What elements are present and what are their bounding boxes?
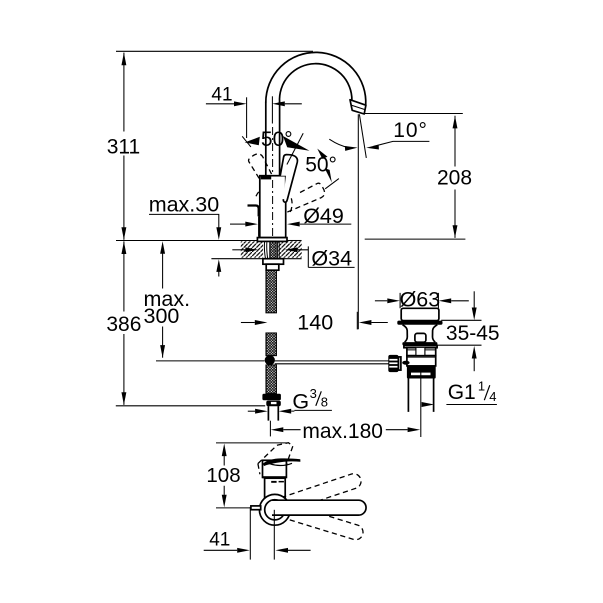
dimension 311 arrow down	[121, 227, 126, 240]
faucet centerline (dash-dot)	[272, 127, 274, 243]
dimension 108	[222, 444, 227, 457]
flexible hose middle segment	[266, 333, 276, 356]
svg-text:G: G	[292, 390, 309, 414]
countertop top line right	[287, 240, 302, 242]
dimension 311 vertical line	[123, 53, 125, 240]
G 3/8 dimension arrows	[248, 410, 255, 412]
pull rod bar (plan)	[251, 506, 261, 510]
countertop hatch left block	[241, 241, 263, 257]
pull-rod knob	[248, 206, 259, 217]
countertop top line left	[116, 240, 257, 242]
countertop bottom line left	[211, 258, 262, 260]
dimension 35-45	[473, 291, 475, 308]
50° second arc top arrowhead	[317, 149, 327, 159]
top reference line (spout max height)	[116, 50, 313, 52]
50° left angle leg line	[242, 136, 251, 147]
clamp body	[407, 348, 436, 356]
svg-text:50°: 50°	[305, 154, 337, 177]
water stream vertical reference line	[357, 114, 359, 329]
countertop hatch right block	[278, 241, 302, 257]
dimension max.180	[271, 427, 284, 432]
mounting nut dark band	[407, 366, 436, 379]
dimension Ø49 line and arrows	[230, 223, 245, 225]
tick marks	[271, 481, 276, 483]
lever underside crescent	[270, 463, 292, 465]
dimension 386 arrow down	[121, 392, 126, 405]
waste tailpipe G1 1/4	[408, 379, 433, 412]
svg-text:35-45: 35-45	[446, 322, 500, 345]
41 top left extension line	[246, 97, 248, 138]
svg-text:max.30: max.30	[149, 193, 220, 217]
clamp screw head	[402, 361, 409, 365]
cartridge dark band	[261, 177, 271, 180]
plan body box	[263, 460, 287, 477]
10° arrow right-pointing	[345, 145, 358, 151]
centerline inside body	[272, 180, 274, 243]
faucet centre extension below stub	[269, 421, 271, 437]
seal washer dark band	[402, 342, 437, 345]
10° arrow left-pointing	[366, 145, 379, 151]
dimension 208 vertical	[454, 116, 456, 238]
max.30 arrow up to counter bottom	[216, 259, 221, 272]
10° leader line	[374, 141, 430, 146]
spout outer arc	[266, 52, 366, 105]
41 top right extension (pipe centre)	[271, 96, 273, 123]
countertop bottom line right	[284, 258, 302, 260]
50° right angle leg line	[325, 179, 339, 189]
pop-up waste neck right curve	[433, 325, 438, 342]
solid lever capsule (plan)	[272, 500, 366, 515]
max.300 reference line at hose joint	[156, 360, 265, 362]
svg-text:max.180: max.180	[302, 420, 383, 443]
waste centerline	[420, 370, 422, 438]
plan body dark bottom edge	[263, 476, 287, 478]
solid lever (fill)	[280, 155, 297, 203]
Ø63 dimension arrows	[375, 300, 387, 302]
pull-rod stem	[258, 216, 260, 236]
horizontal pop-up linkage rod	[275, 361, 389, 364]
left dashed lever position (50° open left)	[245, 151, 290, 198]
G 3/8 thread stub	[268, 406, 278, 421]
svg-text:3: 3	[310, 386, 317, 401]
seal sub-band	[404, 346, 437, 348]
pivot clamp collar	[399, 357, 401, 370]
max.30 leader underline	[149, 214, 219, 229]
hose end reference line for 386	[116, 405, 265, 407]
pop-up rod ball joint	[265, 355, 275, 365]
mounting bolts in counter	[264, 241, 279, 258]
dashed swing trace arc left	[256, 188, 263, 196]
plan lower box	[265, 478, 286, 497]
label G1 1/4 with leader	[422, 402, 435, 407]
base flange escutcheon	[257, 238, 287, 242]
dimension 386 vertical line	[123, 241, 125, 405]
spout riser pipe	[266, 102, 280, 176]
50° left arc arrowhead	[245, 137, 260, 145]
pivot rod clamp knurled knob	[388, 355, 398, 372]
dimension 140	[241, 322, 255, 324]
svg-text:Ø34: Ø34	[311, 246, 352, 270]
svg-text:10°: 10°	[393, 119, 427, 142]
svg-text:140: 140	[297, 311, 333, 335]
flexible hose lower segment	[266, 365, 276, 393]
50° second arc bottom arrowhead	[325, 168, 332, 182]
solid lever (outline)	[280, 155, 297, 203]
plan view bottom extension line	[216, 507, 251, 509]
flexible hose upper segment	[266, 270, 276, 312]
plan view top extension line	[216, 442, 287, 444]
escutcheon inner circle (plan)	[265, 500, 285, 520]
dimension 386 arrow up	[121, 241, 126, 254]
svg-text:108: 108	[206, 464, 240, 487]
svg-text:311: 311	[107, 136, 140, 159]
svg-text:41: 41	[211, 84, 232, 105]
G 3/8 hose fitting	[262, 394, 281, 401]
dashed swivel lever down (plan)	[274, 501, 364, 542]
svg-text:1: 1	[478, 378, 485, 393]
threaded shank through counter	[270, 241, 276, 258]
10° tilted stream line	[359, 114, 366, 158]
208 top reference line	[365, 113, 463, 115]
max.300 arrow up	[160, 241, 165, 254]
dimension Ø34 line and arrows	[232, 249, 245, 251]
lever seen edge-on (black swoosh)	[263, 458, 301, 466]
50° middle angle leg line	[287, 133, 303, 164]
right dashed lever position (50° open right)	[279, 179, 327, 222]
max.300 arrow down	[162, 327, 164, 358]
41 top dimension line and arrows	[206, 103, 234, 105]
svg-text:386: 386	[106, 313, 141, 336]
max.30 arrow down to counter top	[216, 227, 221, 240]
10° angle arc	[329, 139, 348, 147]
escutcheon outer circle (plan)	[259, 494, 290, 525]
pop-up waste flange dark rim	[397, 321, 442, 325]
dimension 311 arrow up	[121, 53, 126, 66]
mounting nut	[407, 356, 436, 366]
svg-text:8: 8	[321, 395, 328, 410]
svg-text:4: 4	[489, 389, 496, 404]
pop-up waste flange	[401, 308, 439, 320]
dashed swing trace arc right	[290, 198, 292, 212]
208 bottom reference line	[365, 238, 466, 240]
spout inner arc	[280, 64, 352, 103]
washer under counter	[263, 259, 284, 265]
svg-text:G1: G1	[448, 381, 476, 404]
svg-text:41: 41	[209, 529, 230, 550]
svg-text:208: 208	[437, 166, 472, 189]
spout tip aerator cap	[350, 100, 366, 114]
pop-up waste neck left curve	[403, 325, 408, 342]
pop-up plug knob	[415, 333, 426, 342]
backnut	[266, 264, 279, 270]
svg-text:Ø49: Ø49	[303, 204, 344, 228]
dashed swivel lever up (plan)	[273, 472, 363, 515]
faucet body cylinder	[260, 176, 286, 238]
dashed raised lever (plan)	[258, 443, 293, 472]
50° first arc right arrowhead	[283, 136, 310, 151]
svg-text:300: 300	[144, 304, 180, 328]
Ø63 extension lines	[400, 293, 438, 308]
